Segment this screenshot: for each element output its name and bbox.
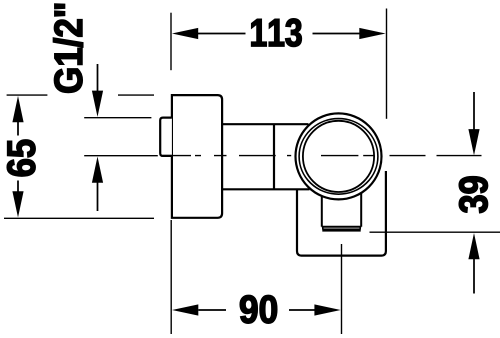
dim 113: dimension line bbox=[198, 33, 360, 35]
dim 90: dimension line bbox=[198, 309, 316, 311]
dim 113: label bbox=[252, 19, 302, 47]
dim G1/2: bottom extension line bbox=[84, 155, 158, 157]
valve body arm bbox=[222, 124, 309, 189]
outlet collar sides bbox=[323, 227, 360, 230]
outlet aerator band bbox=[322, 228, 360, 231]
dim G1/2: label bbox=[53, 4, 82, 93]
dim 65: dimension line bbox=[17, 121, 19, 192]
dim 65: label bbox=[7, 140, 35, 176]
dim 90: left arrow bbox=[172, 304, 198, 315]
dim G1/2: lower leader tail bbox=[97, 182, 99, 211]
horizontal centerline bbox=[163, 155, 482, 157]
G1/2 connector protrusion bbox=[160, 118, 172, 156]
dim 65: top extension line bbox=[7, 94, 154, 96]
dim 90: right extension line bbox=[341, 244, 343, 334]
dim 39: upper arrow (down) bbox=[468, 129, 479, 155]
outlet below handle bbox=[322, 193, 361, 227]
escutcheon wall plate (left, side view) bbox=[172, 95, 222, 218]
dim 113: right arrow bbox=[359, 28, 385, 39]
dim G1/2: lower arrow (up) bbox=[92, 157, 103, 183]
dim 113: left arrow bbox=[172, 28, 198, 39]
dim 39: lower leader tail bbox=[473, 259, 475, 294]
dim G1/2: upper arrow (down) bbox=[92, 91, 103, 117]
dim 39: upper leader tail bbox=[473, 92, 475, 131]
dim 113: right extension line bbox=[386, 9, 388, 119]
mounting plate behind handle bbox=[297, 171, 386, 256]
dim 65: bottom arrow bbox=[12, 191, 23, 217]
dim G1/2: top extension line bbox=[84, 117, 151, 119]
dim 90: label bbox=[240, 295, 277, 323]
handle inner circle bbox=[303, 121, 374, 192]
handle mid circle bbox=[299, 119, 378, 195]
dim 90: right arrow bbox=[314, 304, 340, 315]
dim 113: left extension line bbox=[170, 13, 172, 70]
dim 39: bottom extension line bbox=[370, 231, 500, 233]
dim 65: bottom extension line bbox=[4, 217, 154, 219]
handle outer circle bbox=[296, 113, 382, 199]
dim G1/2: upper leader tail bbox=[97, 64, 99, 92]
dim 39: lower arrow (up) bbox=[468, 233, 479, 259]
dim 39: label bbox=[459, 177, 487, 213]
dim 90: left extension line bbox=[170, 220, 172, 334]
dim 65: top arrow bbox=[12, 96, 23, 122]
